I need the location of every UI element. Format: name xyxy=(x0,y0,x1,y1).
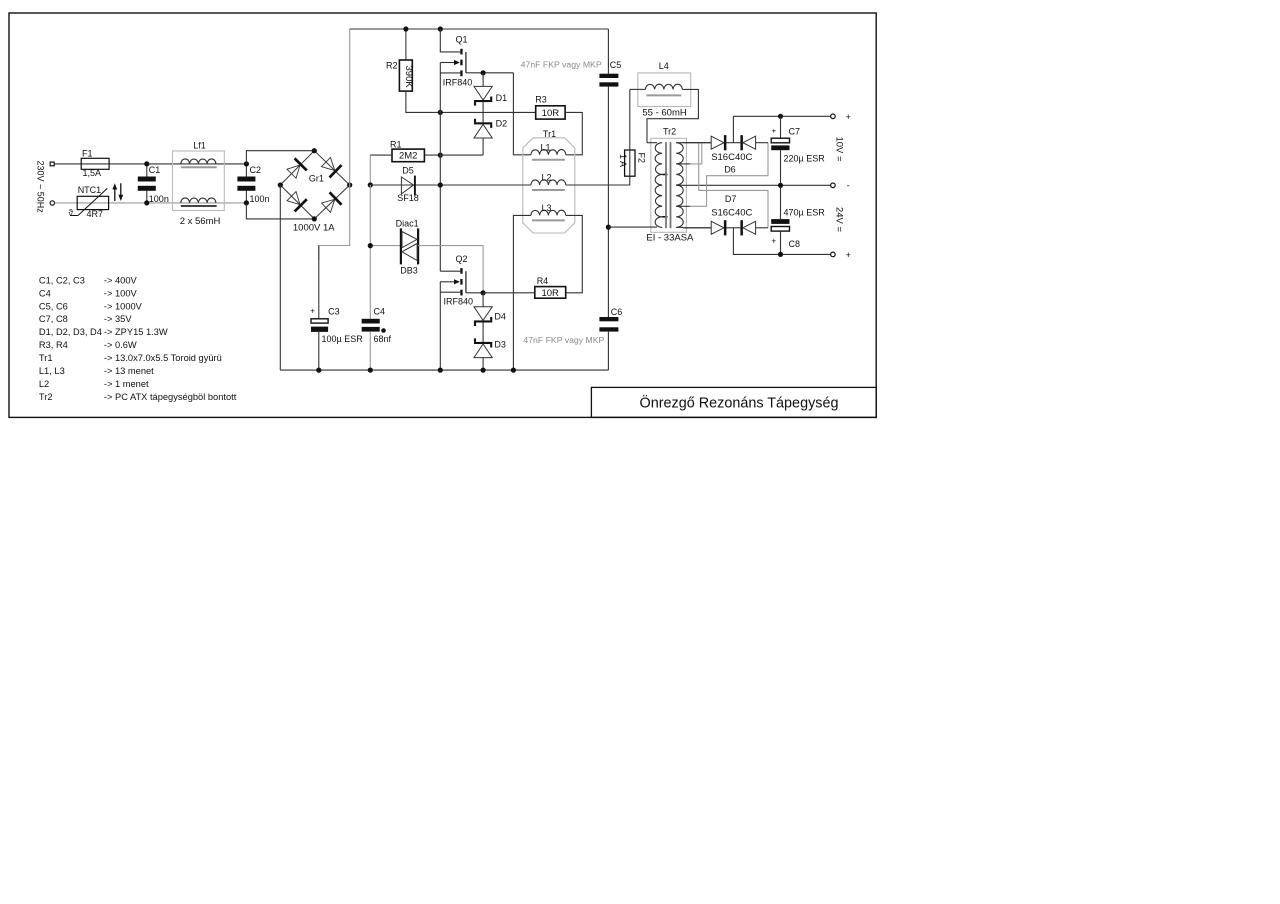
node C4 plate dot xyxy=(381,328,386,333)
node Q1 gate D1 xyxy=(481,70,486,75)
diode pair D7 xyxy=(711,221,724,234)
wire bottom rail xyxy=(280,369,608,371)
wire L4 right xyxy=(647,89,698,142)
diode D5 xyxy=(401,177,413,194)
svg-text:Tr1: Tr1 xyxy=(39,353,53,363)
thermistor NTC1 xyxy=(77,196,108,209)
core L3 xyxy=(532,219,565,221)
inductor Lf1 bottom xyxy=(181,198,216,203)
svg-text:L2: L2 xyxy=(39,379,49,389)
wire diac line xyxy=(370,245,401,247)
wire R2 bottom xyxy=(406,91,536,112)
wire F2 vertical xyxy=(629,89,631,150)
svg-text:-: - xyxy=(847,180,850,190)
capacitor C1 xyxy=(146,164,148,177)
inductor Lf1 top xyxy=(181,159,216,164)
wire R1 left xyxy=(370,154,392,156)
wire C5 to C6 xyxy=(607,87,609,317)
node bridge left xyxy=(278,182,283,187)
svg-text:470µ ESR: 470µ ESR xyxy=(784,207,826,217)
svg-text:C4: C4 xyxy=(39,288,51,298)
svg-text:47nF FKP vagy MKP: 47nF FKP vagy MKP xyxy=(521,60,602,70)
wire D1-D2 xyxy=(482,102,484,122)
bridge arm left-top xyxy=(280,151,314,185)
node bridge bottom xyxy=(312,216,317,221)
capacitor C6 xyxy=(599,317,618,321)
svg-text:-> 1 menet: -> 1 menet xyxy=(104,379,149,389)
svg-text:47nF FKP vagy MKP: 47nF FKP vagy MKP xyxy=(523,335,604,345)
svg-text:+: + xyxy=(846,250,851,260)
svg-text:F1: F1 xyxy=(82,149,93,159)
svg-text:10R: 10R xyxy=(541,288,559,299)
svg-text:L2: L2 xyxy=(541,173,551,183)
node out plus10 xyxy=(778,114,783,119)
svg-text:ϑ: ϑ xyxy=(69,208,74,217)
wire C2 to bridge top xyxy=(246,151,314,164)
svg-text:D2: D2 xyxy=(496,118,508,128)
wire D3 lead xyxy=(482,358,484,371)
svg-text:Q2: Q2 xyxy=(455,254,467,264)
node C2 top xyxy=(244,161,249,166)
wire D4 lead xyxy=(482,293,484,307)
svg-text:R1: R1 xyxy=(390,139,402,149)
svg-text:-> 0.6W: -> 0.6W xyxy=(104,340,137,350)
core Lf1 bottom xyxy=(181,205,217,207)
svg-text:C5: C5 xyxy=(610,60,622,70)
wire D4-D3 xyxy=(482,323,484,342)
wire C3 bottom lead xyxy=(318,332,320,370)
capacitor C7 xyxy=(771,138,789,143)
svg-text:L4: L4 xyxy=(659,61,669,71)
svg-text:1,5A: 1,5A xyxy=(83,168,102,178)
svg-text:10R: 10R xyxy=(542,108,560,119)
transformer box Tr2 xyxy=(651,138,687,232)
svg-text:C8: C8 xyxy=(789,239,801,249)
arrow up xyxy=(114,188,116,201)
terminal input L xyxy=(50,162,54,166)
node R2 rail xyxy=(403,26,408,31)
svg-text:D3: D3 xyxy=(494,340,506,350)
wire L2 line xyxy=(440,184,531,186)
node Q1 drain rail xyxy=(438,26,443,31)
svg-text:D1: D1 xyxy=(496,93,508,103)
node L2 midpoint xyxy=(438,182,443,187)
svg-text:390K: 390K xyxy=(403,66,414,89)
svg-text:D4: D4 xyxy=(494,312,506,322)
node bridge right xyxy=(347,182,352,187)
svg-text:220µ ESR: 220µ ESR xyxy=(784,154,826,164)
svg-text:C7, C8: C7, C8 xyxy=(39,314,68,324)
capacitor C5 xyxy=(599,74,618,78)
svg-text:+: + xyxy=(846,112,851,122)
node C4 diac xyxy=(368,243,373,248)
svg-text:68nf: 68nf xyxy=(374,334,392,344)
svg-text:SF18: SF18 xyxy=(397,193,419,203)
svg-text:D5: D5 xyxy=(402,165,414,175)
svg-text:C1, C2, C3: C1, C2, C3 xyxy=(39,275,85,285)
node out plus24 xyxy=(778,252,783,257)
svg-text:2M2: 2M2 xyxy=(399,151,417,162)
choke box Lf1 xyxy=(173,151,225,211)
wire Q2 drain xyxy=(440,270,460,272)
wire D7 out down xyxy=(733,228,830,255)
svg-text:-> 13.0x7.0x5.5 Toroid gyürü: -> 13.0x7.0x5.5 Toroid gyürü xyxy=(104,353,222,363)
wire midpoint vertical xyxy=(439,63,441,272)
capacitor C3 xyxy=(311,319,328,323)
wire C6 bottom xyxy=(607,332,609,371)
wire L3 left xyxy=(513,215,531,370)
node out minus xyxy=(778,183,783,188)
svg-text:Gr1: Gr1 xyxy=(309,173,324,183)
wire Q1 drain xyxy=(440,29,460,52)
zener D1 xyxy=(474,86,492,100)
wire bridge left down xyxy=(279,185,281,370)
svg-text:C1: C1 xyxy=(149,165,161,175)
svg-text:-> ZPY15 1.3W: -> ZPY15 1.3W xyxy=(104,327,168,337)
transistor Q1 xyxy=(460,49,462,55)
resistor R3 xyxy=(536,106,565,119)
inductor box L4 xyxy=(638,73,691,107)
terminal minus xyxy=(831,183,836,188)
node R1 right xyxy=(438,153,443,158)
svg-text:Tr1: Tr1 xyxy=(543,129,556,139)
terminal plus24 xyxy=(831,252,836,257)
svg-text:Tr2: Tr2 xyxy=(663,127,676,137)
wire L4 left xyxy=(630,88,646,90)
svg-text:R3: R3 xyxy=(535,94,547,104)
node Q2 rail xyxy=(438,368,443,373)
wire D2 lead xyxy=(482,138,484,155)
svg-text:55 - 60mH: 55 - 60mH xyxy=(642,108,686,119)
wire input live xyxy=(54,163,246,165)
wire tap top xyxy=(676,142,711,144)
wire tap bottom xyxy=(676,226,683,228)
node D5 line left xyxy=(368,182,373,187)
svg-text:+: + xyxy=(771,236,776,245)
terminal input N xyxy=(50,201,54,205)
zener D2 xyxy=(474,122,492,124)
svg-text:-> 35V: -> 35V xyxy=(104,314,132,324)
bridge arm left-bottom xyxy=(280,185,314,219)
zener D4 xyxy=(474,307,492,321)
inductor L3 xyxy=(531,210,566,215)
wire C3 top lead xyxy=(318,246,320,319)
svg-text:-> 100V: -> 100V xyxy=(104,288,138,298)
svg-text:R2: R2 xyxy=(386,60,398,70)
svg-text:Lf1: Lf1 xyxy=(193,141,206,151)
node C1 bottom xyxy=(144,200,149,205)
svg-text:+: + xyxy=(310,307,315,316)
wire L3 right xyxy=(566,215,583,292)
wire tap E2 stub xyxy=(676,163,690,165)
node R2 R3 line xyxy=(438,110,443,115)
winding Tr2 secondary xyxy=(676,143,683,228)
svg-text:L1, L3: L1, L3 xyxy=(39,366,65,376)
wire route P2 xyxy=(690,143,702,164)
node C3 rail xyxy=(316,368,321,373)
bridge diode UL xyxy=(287,165,300,178)
bridge diode LR xyxy=(322,199,335,212)
wire C7 bottom lead xyxy=(780,150,782,219)
title box xyxy=(591,387,876,417)
wire Tr2 primary top xyxy=(647,142,657,144)
node bridge top xyxy=(312,148,317,153)
wire D7 right xyxy=(756,227,768,229)
svg-text:100µ ESR: 100µ ESR xyxy=(322,334,364,344)
wire gate to L1 xyxy=(513,73,531,155)
node D3 rail xyxy=(481,368,486,373)
svg-text:C3: C3 xyxy=(328,306,340,316)
capacitor C4 xyxy=(362,319,380,324)
svg-text:2 x 56mH: 2 x 56mH xyxy=(180,216,221,227)
wire D5 line xyxy=(370,184,440,186)
svg-text:DB3: DB3 xyxy=(400,265,418,275)
wire route P3 xyxy=(690,143,768,207)
svg-text:Tr2: Tr2 xyxy=(39,392,53,402)
zener D3 xyxy=(474,342,492,344)
wire route P1 xyxy=(699,143,768,228)
svg-text:+: + xyxy=(771,126,776,135)
wire C2 to bridge bottom xyxy=(246,203,314,219)
svg-text:230V ~ 50Hz: 230V ~ 50Hz xyxy=(36,160,46,213)
wire C5 top xyxy=(607,29,609,74)
capacitor C8 xyxy=(771,219,789,224)
bridge arm top-right xyxy=(314,151,349,185)
fuse F2 xyxy=(625,150,635,176)
svg-text:IRF840: IRF840 xyxy=(444,296,474,306)
wire C8 bottom lead xyxy=(780,231,782,254)
svg-text:-> 1000V: -> 1000V xyxy=(104,301,143,311)
svg-text:C5, C6: C5, C6 xyxy=(39,301,68,311)
core L4 xyxy=(646,94,681,96)
wire D6 out up xyxy=(733,116,830,142)
wire input neutral xyxy=(55,202,247,204)
node C1 top xyxy=(144,161,149,166)
wire D6 right xyxy=(756,142,768,144)
node L3 rail xyxy=(511,368,516,373)
svg-text:100n: 100n xyxy=(250,194,270,204)
core L2 xyxy=(532,189,565,191)
terminal plus10 xyxy=(831,114,836,119)
svg-text:-> PC ATX tápegységböl bontott: -> PC ATX tápegységböl bontott xyxy=(104,392,237,402)
capacitor C2 xyxy=(245,164,247,177)
wire R2 top xyxy=(405,29,407,60)
wire D1 lead xyxy=(482,73,484,87)
diac Diac1 xyxy=(400,228,402,264)
transistor Q2 xyxy=(460,268,462,274)
wire C7 top lead xyxy=(780,116,782,138)
svg-text:EI - 33ASA: EI - 33ASA xyxy=(646,233,694,244)
svg-text:1 A: 1 A xyxy=(618,154,628,167)
wire Q2 gate exit xyxy=(466,292,483,294)
wire R1 drop xyxy=(369,155,371,185)
svg-text:F2: F2 xyxy=(637,152,647,163)
node Q2 gate xyxy=(481,290,486,295)
resistor R1 xyxy=(392,149,424,162)
svg-text:D1, D2, D3, D4: D1, D2, D3, D4 xyxy=(39,327,102,337)
node C4 rail xyxy=(368,368,373,373)
resistor R4 xyxy=(535,287,566,299)
svg-text:D7: D7 xyxy=(725,194,737,204)
fuse F1 xyxy=(81,158,109,169)
svg-text:R3, R4: R3, R4 xyxy=(39,340,68,350)
resistor R2 xyxy=(399,60,412,91)
bridge diode UR xyxy=(322,157,335,170)
wire Q2 source down xyxy=(439,282,441,370)
transformer box Tr1 xyxy=(523,138,575,233)
svg-text:IRF840: IRF840 xyxy=(443,77,473,87)
svg-text:R4: R4 xyxy=(537,276,549,286)
wire R1 to D2 xyxy=(440,154,483,156)
svg-text:-> 400V: -> 400V xyxy=(104,275,138,285)
core Tr2 xyxy=(665,142,667,228)
core L1 xyxy=(532,159,565,161)
wire Tr2 primary bottom xyxy=(608,226,657,228)
svg-text:24V =: 24V = xyxy=(833,207,844,233)
svg-text:Önrezgő Rezonáns Tápegység: Önrezgő Rezonáns Tápegység xyxy=(640,394,839,412)
svg-text:100n: 100n xyxy=(149,194,169,204)
diode pair D6 xyxy=(711,136,724,149)
wire Q1 gate exit xyxy=(466,72,514,74)
svg-text:C6: C6 xyxy=(611,307,623,317)
svg-text:C2: C2 xyxy=(250,165,262,175)
bridge diode LL xyxy=(287,192,300,205)
inductor L2 xyxy=(531,180,566,185)
node C5C6 mid xyxy=(606,225,611,230)
wire L2 to F2 xyxy=(566,176,630,185)
wire bridge right to C3 xyxy=(319,185,350,260)
svg-text:1000V 1A: 1000V 1A xyxy=(293,223,335,234)
svg-text:C4: C4 xyxy=(374,306,386,316)
winding Tr2 primary xyxy=(655,143,662,228)
wire R1 right xyxy=(424,154,440,156)
wire bridge right up xyxy=(349,29,351,185)
svg-text:S16C40C: S16C40C xyxy=(711,152,752,163)
wire R3 right xyxy=(565,112,582,154)
svg-text:C7: C7 xyxy=(789,126,801,136)
svg-text:Q1: Q1 xyxy=(455,35,467,45)
inductor L1 xyxy=(531,150,566,155)
wire top rail xyxy=(350,28,609,30)
svg-text:10V =: 10V = xyxy=(833,136,844,162)
arrow down xyxy=(120,183,122,196)
wire tap center xyxy=(676,184,830,186)
svg-text:S16C40C: S16C40C xyxy=(711,208,752,219)
wire diac right xyxy=(418,246,483,293)
wire C4 bottom lead xyxy=(369,332,371,370)
svg-text:L3: L3 xyxy=(541,203,551,213)
core Lf1 top xyxy=(181,166,217,168)
bridge arm bottom-right xyxy=(314,185,349,219)
wire R4 left xyxy=(483,292,535,294)
drawing frame xyxy=(9,13,876,417)
svg-text:Diac1: Diac1 xyxy=(396,219,419,229)
svg-text:D6: D6 xyxy=(724,164,736,174)
wire tap E3 stub xyxy=(676,205,690,207)
svg-text:L1: L1 xyxy=(540,143,550,153)
svg-text:4R7: 4R7 xyxy=(87,209,104,219)
inductor L4 xyxy=(645,84,682,89)
svg-text:-> 13 menet: -> 13 menet xyxy=(104,366,154,376)
wire C4 vertical xyxy=(369,185,371,319)
node C2 bottom xyxy=(244,200,249,205)
svg-text:NTC1: NTC1 xyxy=(78,185,102,195)
